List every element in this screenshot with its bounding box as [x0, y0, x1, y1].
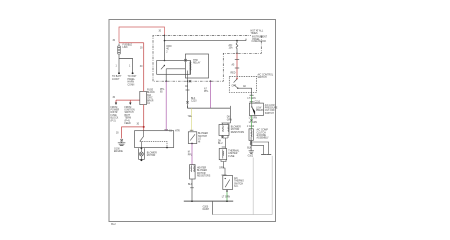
resistor feed T bar — [222, 122, 231, 124]
relay A contact dot — [164, 65, 165, 66]
label C connector right pin — [191, 98, 197, 103]
blower cutout switch box R3 — [223, 176, 233, 190]
label R3 — [234, 177, 244, 188]
resistor feed stubs — [223, 123, 229, 125]
svg-text:A/C: A/C — [229, 44, 233, 47]
svg-text:BLK: BLK — [247, 147, 252, 149]
blower motor circle — [139, 152, 143, 156]
arrowhead mid feed — [129, 103, 131, 106]
label clutch — [257, 129, 270, 140]
label blower switch — [198, 133, 208, 143]
svg-text:LT GRN: LT GRN — [248, 98, 257, 100]
junction dot ground bus right — [226, 200, 228, 202]
wire: blower resistor to ground bus — [191, 179, 193, 201]
page border frame — [109, 20, 276, 222]
wire: black branch to right drop — [119, 59, 133, 73]
junction dot heater module bottom right — [166, 147, 168, 149]
svg-text:PPL: PPL — [160, 89, 165, 91]
svg-text:TERM: TERM — [125, 118, 132, 120]
svg-text:30A: 30A — [147, 94, 152, 97]
wire: PPL from relay to heater box — [165, 81, 167, 130]
label PPL left relay wire — [160, 89, 165, 94]
connector tick right pin wire — [186, 89, 190, 91]
tick bus right — [229, 106, 231, 108]
label R2 — [228, 150, 240, 158]
svg-text:HOT AT ALL: HOT AT ALL — [251, 30, 264, 33]
svg-text:RESISTORS: RESISTORS — [231, 132, 245, 134]
svg-text:BLU: BLU — [218, 143, 223, 145]
A/C switch contact dot — [236, 78, 237, 79]
svg-text:G200: G200 — [203, 206, 209, 208]
connector tick A/C request — [250, 94, 254, 96]
pressure switch contact — [251, 106, 252, 107]
wire: red from fuse to A/C switch — [236, 53, 238, 78]
svg-text:N.C.: N.C. — [234, 186, 239, 188]
terminal dot C100 — [118, 72, 120, 74]
svg-text:LINK: LINK — [123, 47, 129, 49]
label inside pressure switch — [256, 108, 264, 113]
svg-text:THERMAL: THERMAL — [228, 150, 240, 153]
svg-text:ASSEMBLY: ASSEMBLY — [257, 137, 270, 140]
svg-text:FROM: FROM — [125, 107, 132, 109]
A/C control switch dashed box — [229, 76, 256, 92]
terminal tick 2 — [261, 154, 266, 156]
svg-text:DISTR: DISTR — [111, 112, 118, 114]
svg-text:RELAY: RELAY — [193, 62, 201, 65]
svg-text:THERMO: THERMO — [234, 181, 244, 183]
resistor squiggle 2 — [193, 166, 196, 172]
wire: red battery feed loop top-left — [119, 27, 165, 43]
svg-text:& DIODE: & DIODE — [257, 135, 267, 137]
connector X right pin — [189, 80, 191, 82]
wire R2 to R3 — [224, 164, 226, 176]
R3 blade — [225, 180, 230, 188]
A/C switch contact 2 — [237, 88, 238, 89]
ground symbol clutch — [249, 151, 254, 154]
svg-text:FUSE: FUSE — [111, 115, 118, 117]
connector tick 2 — [235, 67, 239, 69]
label ground clutch — [248, 156, 254, 158]
svg-text:GRN: GRN — [227, 119, 232, 121]
svg-text:LT GRN: LT GRN — [222, 196, 231, 198]
relay A blade — [161, 66, 165, 70]
heater bus bar — [188, 107, 231, 109]
svg-text:HTR: HTR — [193, 60, 198, 62]
wire: DK GRN drop from bus right — [229, 108, 231, 123]
tick bus left — [187, 106, 189, 108]
svg-text:CUT-OFF: CUT-OFF — [265, 110, 276, 112]
label R1 exit — [218, 140, 223, 145]
svg-text:RESISTORS: RESISTORS — [197, 176, 211, 178]
ground bus bar — [184, 200, 233, 202]
clutch coil — [250, 129, 253, 141]
svg-text:G102: G102 — [248, 156, 254, 158]
A/C switch blade 2 — [234, 85, 238, 88]
svg-text:A/C COMP: A/C COMP — [257, 129, 269, 132]
svg-text:FUSE: FUSE — [147, 90, 154, 92]
svg-text:SWITCH: SWITCH — [198, 136, 207, 138]
svg-text:BLOCK: BLOCK — [147, 92, 155, 94]
resistor squiggle 1 — [190, 166, 193, 172]
svg-text:RED: RED — [231, 73, 236, 75]
svg-text:SWITCH: SWITCH — [125, 112, 134, 114]
label fusible link — [123, 45, 133, 50]
label blower resistors — [197, 167, 211, 178]
svg-text:LOW: LOW — [256, 108, 262, 110]
tick resistor ground wire — [190, 187, 194, 189]
label fuse block hot at all times — [251, 30, 268, 44]
svg-text:FROM: FROM — [111, 107, 118, 109]
svg-text:MOTOR: MOTOR — [147, 155, 156, 157]
label under mid arrow — [125, 107, 136, 125]
svg-text:C220: C220 — [191, 101, 197, 103]
label under left arrow — [111, 107, 120, 123]
wire: YEL drop to blower switch — [191, 108, 193, 131]
blower motor wires — [140, 148, 142, 160]
label ground G1 — [114, 148, 123, 153]
relay box A — [157, 61, 191, 75]
heater module box — [135, 131, 174, 148]
wire: LT GRN to ground bus — [226, 192, 228, 201]
svg-text:PRESS: PRESS — [256, 110, 264, 112]
ground symbol G1 — [118, 141, 126, 145]
svg-text:TIMES: TIMES — [251, 33, 258, 35]
svg-text:CONN: CONN — [128, 84, 135, 86]
wire R1 to R2 — [225, 140, 227, 149]
wire: PPL to heater bus — [210, 81, 212, 108]
svg-text:BLOWER: BLOWER — [231, 127, 241, 129]
svg-text:BLK: BLK — [191, 98, 196, 100]
svg-text:15A: 15A — [229, 47, 234, 50]
wire: LT GRN to clutch — [251, 116, 253, 129]
svg-text:FEED: FEED — [125, 123, 131, 125]
svg-text:JUNCT: JUNCT — [112, 79, 120, 81]
label A/C control switch — [258, 74, 274, 80]
relay B coil — [188, 62, 192, 82]
svg-text:M: M — [188, 152, 190, 154]
connector X at relay B edge — [184, 59, 187, 61]
wire: branch to terminal 2 — [251, 145, 264, 154]
blower motor resistors box R1 — [219, 125, 229, 136]
wire: black relay right pin down to bus — [187, 81, 189, 108]
svg-text:LO: LO — [198, 139, 201, 141]
R1 squiggle 2 — [227, 126, 230, 132]
svg-text:(P-2): (P-2) — [111, 120, 116, 122]
svg-text:PANEL: PANEL — [128, 78, 136, 81]
junction dot left pin — [165, 80, 167, 82]
svg-text:BLOWER: BLOWER — [198, 133, 208, 135]
junction dot R3 exit — [226, 190, 228, 192]
A/C pressure switch box — [249, 103, 263, 115]
arrowhead left feed — [115, 103, 117, 106]
tick R3 top — [222, 174, 227, 176]
wire label on relay feed — [166, 46, 171, 53]
svg-text:BLOCK: BLOCK — [111, 118, 119, 120]
svg-text:36-2: 36-2 — [111, 224, 116, 226]
junction dot fuse at dashed — [236, 53, 238, 55]
relay A internal wire — [166, 69, 185, 75]
relay box B — [185, 54, 208, 78]
svg-text:(P-4): (P-4) — [125, 120, 130, 122]
wire: red vertical 30 through junction — [119, 43, 144, 131]
connector X clutch wire — [250, 119, 252, 121]
svg-text:ORN: ORN — [166, 46, 171, 48]
svg-text:LT GRN: LT GRN — [249, 122, 258, 124]
svg-text:MOTOR: MOTOR — [231, 129, 240, 131]
svg-text:DASH: DASH — [203, 208, 210, 211]
junction dot red at dashed line — [164, 35, 166, 37]
R2 exit merge — [221, 160, 226, 164]
svg-text:BLK: BLK — [188, 184, 193, 186]
svg-text:FUSIBLE: FUSIBLE — [123, 45, 133, 47]
pressure switch wire in — [251, 103, 253, 107]
svg-text:POWER: POWER — [111, 110, 120, 112]
junction dot relay top pin — [164, 60, 166, 62]
wire: LT GRN A/C request — [251, 95, 253, 103]
junction dot red branch — [143, 126, 145, 128]
wire: PPL blower to resistors — [191, 144, 193, 165]
svg-text:HEATER: HEATER — [197, 167, 206, 170]
svg-text:HI: HI — [198, 141, 201, 143]
svg-text:FUSE: FUSE — [228, 156, 235, 158]
junction dot fuse top — [236, 40, 238, 42]
svg-text:PPL: PPL — [188, 154, 193, 156]
terminal tick 1 — [266, 154, 271, 156]
wire: feed inside fuse block — [165, 35, 247, 60]
svg-text:SWITCH: SWITCH — [265, 113, 274, 115]
svg-text:1 C212: 1 C212 — [247, 126, 255, 128]
junction dot clutch — [250, 141, 252, 143]
tick blower switch top — [190, 129, 194, 131]
R1 squiggle 1 — [222, 126, 225, 132]
svg-text:BLOWER: BLOWER — [197, 170, 207, 172]
relay pin wire left (to PPL) — [165, 74, 167, 81]
junction dot blower switch out — [191, 143, 193, 145]
svg-text:YEL: YEL — [188, 116, 193, 118]
svg-text:G100: G100 — [114, 148, 120, 150]
wire: ground bus to G point — [212, 201, 214, 214]
label under left terminal — [112, 75, 122, 81]
svg-text:MOTOR: MOTOR — [197, 173, 206, 175]
label ground point — [203, 206, 210, 211]
dashed fuse block outline — [153, 35, 261, 81]
label junction block — [147, 90, 155, 106]
connector tick 1 — [235, 59, 239, 61]
fuse F2 heater — [236, 41, 238, 54]
connector X on ground wire — [120, 139, 123, 141]
label fuse — [229, 44, 234, 50]
junction dot PPL2 at dashed — [210, 80, 212, 82]
svg-text:LT GRN: LT GRN — [249, 118, 258, 120]
blower motor housing — [139, 148, 145, 159]
svg-text:A/C LOW: A/C LOW — [265, 104, 276, 107]
pressure switch blade — [252, 107, 255, 116]
connector X clutch ground — [250, 143, 252, 145]
svg-text:LIMITER: LIMITER — [228, 153, 237, 155]
blower motor feed dot — [141, 148, 143, 150]
svg-text:TO INST: TO INST — [128, 76, 138, 78]
R3 exit wire — [226, 190, 228, 193]
svg-text:IGNITION: IGNITION — [125, 110, 136, 112]
svg-text:A/C: A/C — [234, 177, 238, 180]
blower motor brushes — [140, 153, 143, 156]
svg-text:ENGINE: ENGINE — [114, 151, 123, 153]
connector X right pin low — [186, 101, 188, 103]
blower motor bottom terminal — [140, 159, 142, 161]
svg-text:BLOWER: BLOWER — [147, 152, 157, 154]
faint routing line bottom right — [213, 156, 273, 215]
A/C switch output wire — [238, 88, 252, 95]
label under right terminal — [128, 76, 138, 86]
svg-text:FUSE BLOCK: FUSE BLOCK — [252, 41, 267, 43]
R2 element — [222, 150, 225, 159]
label relay — [193, 60, 201, 65]
wire: black drop to C100 left — [118, 59, 120, 73]
connector tick 2 — [250, 101, 254, 103]
junction dot feed — [164, 40, 166, 42]
A/C compressor clutch box — [249, 129, 253, 141]
heater module internal wire — [140, 131, 167, 149]
fusible link F1 — [118, 44, 121, 59]
svg-text:BRKR: BRKR — [147, 100, 154, 102]
wire: branch to terminal 1 — [251, 142, 269, 154]
blower switch box — [188, 132, 197, 144]
tick heater module magenta input — [164, 129, 168, 131]
junction block J1 — [140, 91, 147, 104]
connector X R1 exit — [221, 136, 223, 138]
R3 contact — [225, 178, 226, 179]
svg-text:SWITCH: SWITCH — [258, 77, 267, 79]
svg-text:PPL: PPL — [204, 91, 209, 93]
label right pin wire — [185, 85, 189, 88]
junction dot right pin — [187, 80, 189, 82]
svg-text:CIRC: CIRC — [147, 98, 153, 100]
tick R2 top — [222, 146, 226, 148]
A/C switch blade 1 — [234, 79, 237, 83]
svg-text:BATT: BATT — [125, 114, 131, 117]
thermal limiter box R2 — [219, 149, 227, 160]
svg-text:TO BATT: TO BATT — [112, 75, 122, 78]
svg-text:SWITCH: SWITCH — [234, 183, 243, 185]
svg-text:DK: DK — [218, 140, 222, 142]
terminal dot right — [132, 72, 134, 74]
label PPL2 — [204, 88, 209, 94]
svg-text:DK: DK — [227, 117, 231, 119]
label PPL blower — [188, 152, 193, 157]
svg-text:A/C CONTROL: A/C CONTROL — [258, 74, 274, 77]
svg-text:CLUTCH: CLUTCH — [257, 132, 267, 134]
svg-text:PRESSURE: PRESSURE — [265, 108, 278, 110]
junction dot ground bus left — [191, 200, 193, 202]
wire: red branch to ground left — [122, 127, 144, 139]
label DK GRN — [227, 117, 232, 122]
wire: red feed to junction block — [116, 100, 140, 103]
label pressure switch right — [265, 104, 278, 115]
label blower motor — [147, 152, 157, 157]
blower switch blade — [190, 134, 195, 140]
svg-text:HTR: HTR — [175, 131, 180, 133]
label R2 exit — [219, 168, 224, 170]
svg-text:HARN: HARN — [128, 81, 135, 84]
wire: clutch ground junction — [250, 140, 252, 150]
R1 exit stubs — [223, 135, 229, 139]
blower resistors box — [190, 165, 196, 179]
label R1 — [231, 127, 245, 134]
